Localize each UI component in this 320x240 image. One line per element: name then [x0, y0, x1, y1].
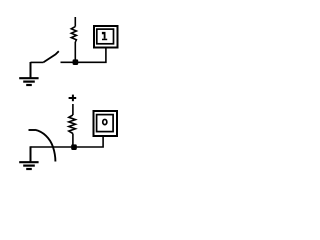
resistor R2: [69, 104, 76, 147]
ground (top): [19, 62, 38, 85]
terminal + (supply node, bottom circuit): [69, 95, 77, 102]
wire (switch contact to output node, top): [61, 49, 106, 63]
node A (junction dot, top): [73, 59, 79, 65]
indicator box U1 (output = 1): [94, 26, 118, 48]
wire (ground to output node, bottom, switch closed): [31, 137, 104, 148]
switch S2 (closing motion arc): [29, 130, 56, 162]
ground (bottom): [19, 146, 38, 169]
label 0: [103, 119, 107, 124]
label 1: [102, 32, 107, 40]
wire (ground to switch pivot, top): [31, 61, 44, 63]
indicator box U2 (output = 0): [94, 111, 118, 136]
resistor R1: [71, 17, 76, 62]
node B (junction dot, bottom): [71, 144, 77, 150]
switch S1 (open blade): [44, 51, 59, 62]
